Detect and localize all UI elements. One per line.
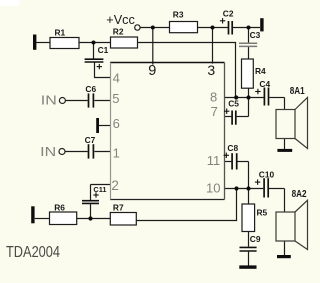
svg-text:7: 7 — [211, 104, 218, 119]
svg-text:R7: R7 — [113, 203, 124, 213]
svg-text:8A2: 8A2 — [292, 189, 307, 200]
svg-text:C5: C5 — [228, 99, 239, 109]
svg-text:1: 1 — [113, 145, 120, 160]
svg-text:8A1: 8A1 — [290, 86, 305, 97]
svg-text:R5: R5 — [257, 208, 268, 218]
svg-text:C4: C4 — [259, 79, 270, 89]
svg-text:C2: C2 — [223, 8, 234, 18]
svg-text:C10: C10 — [259, 170, 275, 180]
svg-text:C9: C9 — [250, 234, 261, 244]
svg-text:R6: R6 — [54, 202, 65, 212]
svg-text:2: 2 — [111, 178, 119, 193]
svg-text:C7: C7 — [85, 135, 96, 145]
svg-text:3: 3 — [207, 62, 215, 78]
svg-text:IN: IN — [41, 93, 57, 108]
svg-text:C6: C6 — [85, 84, 96, 94]
svg-text:C8: C8 — [227, 143, 238, 153]
svg-text:10: 10 — [206, 181, 220, 196]
svg-text:IN: IN — [40, 144, 56, 159]
svg-text:R4: R4 — [255, 66, 266, 76]
svg-text:6: 6 — [113, 116, 120, 131]
svg-text:9: 9 — [148, 63, 156, 79]
svg-text:11: 11 — [207, 153, 221, 168]
svg-text:+Vcc: +Vcc — [106, 12, 135, 27]
svg-text:5: 5 — [112, 91, 119, 106]
svg-text:C1: C1 — [98, 45, 109, 55]
svg-text:TDA2004: TDA2004 — [6, 244, 60, 261]
svg-text:C3: C3 — [250, 30, 261, 40]
svg-text:R2: R2 — [113, 27, 124, 37]
svg-text:R1: R1 — [55, 27, 66, 37]
svg-text:4: 4 — [113, 71, 120, 86]
svg-text:R3: R3 — [173, 10, 184, 20]
svg-text:C11: C11 — [93, 185, 106, 194]
svg-text:8: 8 — [210, 89, 217, 104]
